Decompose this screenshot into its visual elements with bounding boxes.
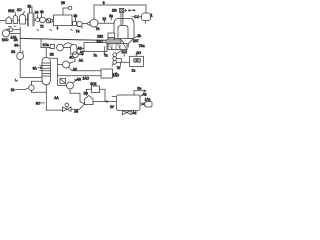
pipe stub V3 top [23,11,25,14]
svg-text:AS: AS [77,77,81,81]
D2 inlet upper [112,96,117,98]
valve circle A [36,18,40,22]
svg-text:74: 74 [76,30,80,34]
tick 2a [110,17,112,20]
valve bowtie funnel [122,50,126,54]
svg-text:7a: 7a [93,53,97,57]
mark right of box [125,9,127,11]
control box R1 [130,56,144,66]
suction P4 [58,85,67,87]
gauge circle [69,6,72,9]
tick V1 [22,51,23,53]
svg-text:2SO: 2SO [96,39,103,43]
column stubs left [40,66,42,71]
top small box [120,8,124,12]
302 right leg [100,89,106,101]
wire feed left [0,20,6,22]
svg-text:3O2: 3O2 [90,82,96,86]
wire [132,16,142,18]
pump C with base [77,21,82,26]
P5 bottom pipe [31,90,46,92]
drum D1 [142,13,151,21]
pump circle B [40,17,46,23]
vessel pot1 [6,17,12,24]
pump P5 [29,85,34,90]
svg-text:1O: 1O [17,8,22,12]
svg-text:1N2: 1N2 [8,9,14,13]
wire cluster lower [9,33,20,35]
reflux wall [50,58,57,85]
bell base bottom line [114,38,134,40]
cluster arc [6,28,9,31]
column bottoms line [46,85,62,110]
wire [63,47,70,49]
box 302 [92,86,100,93]
wire [12,20,14,22]
svg-text:2S: 2S [112,8,116,12]
column C1 shell [42,57,50,79]
stack to funnel [116,51,121,54]
D2 bottom valve [126,110,128,113]
drain stub T1 [57,26,59,30]
small box M0 [50,44,54,48]
svg-text:Sa: Sa [137,87,141,91]
svg-text:Ab: Ab [143,92,147,96]
drop with arrow [104,47,106,56]
lower wire [58,75,102,77]
valve box VX [47,19,51,23]
label 64 [2,38,5,40]
svg-text:3O: 3O [84,92,89,96]
bottoms valve VB1 [63,107,71,111]
vessel cylinder C0 [28,13,34,26]
svg-text:1a: 1a [132,69,136,73]
arrow mark [131,10,135,12]
box B2 [101,69,113,78]
svg-text:34: 34 [35,11,39,15]
pump P1 [90,19,98,27]
svg-text:1AO: 1AO [2,38,9,42]
svg-text:7Sa: 7Sa [139,44,145,48]
pipe stub V2 top [14,13,16,16]
D2 vapor out [134,90,146,95]
pump circle M [57,44,64,51]
crucible box [108,43,127,49]
D2 tick 4b [140,94,143,96]
wire V4 to M1 [77,48,84,50]
node small circle [50,20,53,23]
header drop right [145,5,147,13]
svg-text:7b: 7b [117,66,121,70]
svg-text:A2: A2 [80,51,84,55]
svg-text:Ad: Ad [132,111,136,115]
hatched band [106,40,121,43]
svg-text:8: 8 [103,1,105,5]
svg-text:1b: 1b [11,88,15,92]
funnel below bell [120,39,133,50]
3-circle stack [113,53,117,57]
P2 drop [69,58,75,64]
svg-text:32: 32 [28,5,32,9]
stack tick [112,64,113,66]
box D3 [145,102,152,108]
stub into R1 [135,53,137,57]
P3 outlet [68,67,101,71]
pipe stub VY [74,17,76,21]
svg-text:1Ac: 1Ac [145,98,151,102]
chain wire [41,47,50,49]
feed riser from header [40,39,42,48]
P5 suction [15,88,28,90]
wire P1 to bell [98,22,114,24]
bell outer vessel [114,18,134,38]
pipe stub B [41,14,43,18]
main left riser [19,27,21,52]
svg-text:S2: S2 [50,52,54,56]
302 left leg [87,89,92,95]
pipe stub C0b [31,7,33,14]
svg-text:A3: A3 [73,67,77,71]
long header line [20,38,107,40]
wire cluster upper [13,29,20,31]
stub tick [118,102,120,107]
tick mark a [37,29,39,30]
wire [45,20,46,22]
svg-text:34: 34 [14,44,18,48]
bell inner vessel [118,25,128,38]
svg-text:1B: 1B [61,1,65,5]
vessel V3 [20,15,26,24]
svg-text:2S7: 2S7 [133,39,139,43]
pump P4 [67,82,74,89]
tick 72b [9,26,12,28]
vessel V2 [13,16,17,24]
pipe stub C0a [29,8,31,13]
tick below VY [71,29,73,30]
valve box VY [73,21,77,25]
tick mark b [50,29,52,30]
feed tube into bell [121,13,123,26]
P4 discharge loop [70,89,84,104]
svg-text:2S2: 2S2 [97,34,103,38]
svg-text:4b: 4b [40,10,44,14]
reactor box T1 [53,15,72,26]
vessel V4 [71,45,77,54]
pump cluster big circle [2,30,9,37]
pump P3 [63,61,70,68]
drum D2 [117,95,141,111]
downcomer [20,60,42,78]
tick 70b [14,25,16,27]
svg-text:72: 72 [40,24,44,28]
house outlet [93,101,117,103]
svg-text:3O: 3O [36,101,41,105]
rotary valve P2 [73,52,79,58]
wire after valve [71,104,85,109]
column vapor line [45,48,47,58]
wire [34,19,36,21]
B2 outlet arrow [113,73,118,75]
house H1 [85,96,93,105]
suction P3 [58,64,63,66]
stacked box S1 [108,33,115,38]
stack lines [117,59,130,67]
top header pipe [94,4,146,6]
pump cluster small circle [9,28,13,32]
svg-text:4O: 4O [69,55,74,59]
dot mark [128,9,130,11]
valve circle V1 [17,53,24,60]
wire [25,19,27,21]
svg-text:1Oa: 1Oa [43,43,49,47]
riser pipe P1 [93,5,95,19]
vent pipe T1 [63,8,68,15]
wire [17,19,19,21]
pipe stub A [37,15,39,18]
wire P2 out [78,54,83,56]
svg-text:1AO: 1AO [83,77,90,81]
exchanger box M1 [84,43,107,52]
stacked box S2 [108,38,115,43]
D2 to box D3 [140,103,145,105]
svg-text:A8: A8 [74,109,78,113]
P4 arrow out [72,80,76,83]
label 14a [15,79,18,82]
valve box VW [60,79,66,84]
tick 12 [103,20,105,23]
svg-text:7b: 7b [96,27,100,31]
label right D1 [151,16,153,18]
bypass arc [64,43,73,46]
background [0,0,153,116]
P5 top pipe [31,81,42,85]
stub below valve [123,54,125,57]
column bottom bowl [42,79,50,85]
svg-text:2b: 2b [137,34,141,38]
svg-text:2O: 2O [137,51,142,55]
valve bowtie D1 [135,15,138,18]
column trays [42,63,50,76]
inlet wedge [87,22,90,26]
wire [82,23,86,25]
wire M1 out [107,46,112,48]
